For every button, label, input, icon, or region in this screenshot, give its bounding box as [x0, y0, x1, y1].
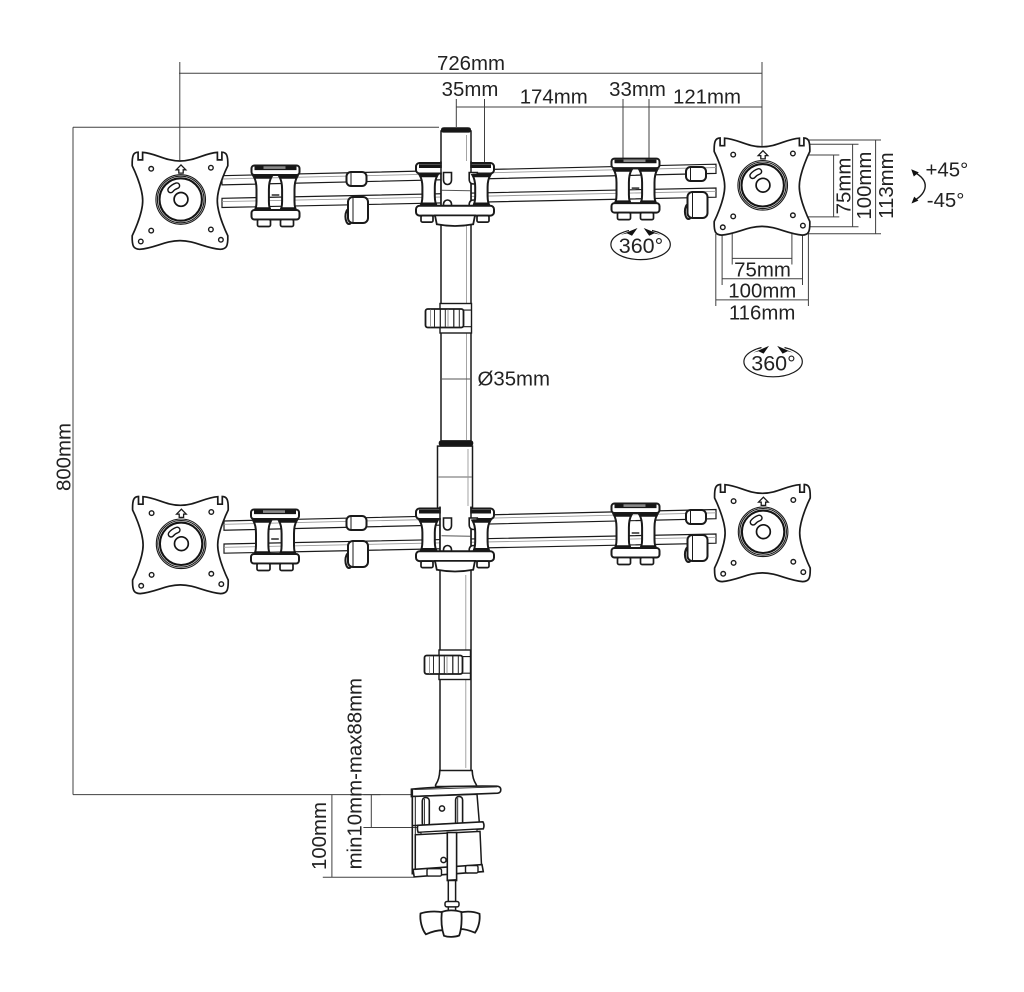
clamp rod collar: [445, 902, 459, 907]
svg-text:+45°: +45°: [926, 160, 969, 182]
svg-text:726mm: 726mm: [437, 53, 505, 75]
ext 75mm bottom: [796, 216, 840, 218]
top arm right joint clamp: [612, 159, 660, 220]
pole joint dark ring: [439, 440, 474, 446]
clamp bottom lip slot right: [466, 866, 479, 873]
pole seam: [441, 378, 471, 380]
pole clamp bottom arm: [416, 507, 494, 572]
VESA plate top-right: [714, 138, 810, 235]
pole top cap: [441, 127, 471, 132]
VESA plate bottom-right: [715, 485, 811, 582]
ext line min-max top tick: [363, 794, 380, 796]
svg-text:75mm: 75mm: [734, 260, 791, 282]
ext 100mm right: [802, 230, 804, 285]
clamp upper hole: [439, 806, 444, 811]
pole collar lower: [425, 650, 471, 680]
dim 100mm vertical line bottom: [331, 795, 333, 878]
bottom arm left cable clips: [345, 516, 368, 568]
ext 116mm right: [807, 230, 809, 306]
ext line clamp shelf: [363, 827, 418, 829]
tick 35mm right: [484, 99, 486, 163]
svg-text:33mm: 33mm: [609, 79, 666, 101]
ext 75mm top: [796, 154, 840, 156]
clamp knob left wing: [420, 912, 443, 935]
svg-text:35mm: 35mm: [442, 79, 499, 101]
svg-text:100mm: 100mm: [854, 152, 876, 220]
svg-text:100mm: 100mm: [309, 802, 331, 870]
top arm right cable clips: [685, 167, 708, 219]
bottom arm upper tube: [224, 510, 716, 531]
svg-text:121mm: 121mm: [673, 87, 741, 109]
dim 116mm bottom line: [716, 299, 809, 301]
dim 726mm line: [179, 72, 762, 74]
ext line 800mm top: [73, 126, 439, 128]
ext 75mm right: [791, 220, 793, 265]
clamp knob hub: [441, 910, 461, 937]
svg-text:Ø35mm: Ø35mm: [478, 369, 551, 391]
svg-text:113mm: 113mm: [876, 152, 898, 218]
svg-text:-45°: -45°: [927, 190, 965, 212]
dim min-max vertical line: [370, 795, 372, 828]
clamp lower hole: [441, 857, 446, 862]
clamp lower body face: [415, 831, 481, 869]
ext line right 726mm: [761, 62, 763, 147]
VESA plate top-left: [132, 152, 228, 249]
clamp top plate: [411, 786, 500, 796]
top arm left cable clips: [345, 172, 368, 224]
dim 113mm vertical line: [875, 140, 877, 234]
pole upper section: [441, 131, 471, 441]
tick 174mm right: [622, 99, 624, 159]
clamp bottom lip: [413, 865, 483, 877]
svg-text:116mm: 116mm: [729, 303, 795, 325]
pole sleeve section: [438, 446, 473, 508]
ext 113mm top: [808, 139, 881, 141]
top arm left joint clamp: [252, 166, 300, 227]
360 ellipse under right plate: [744, 346, 802, 376]
bottom arm lower tube: [224, 534, 716, 553]
pole collar upper: [426, 304, 472, 334]
svg-text:360°: 360°: [619, 234, 663, 258]
svg-text:100mm: 100mm: [728, 281, 796, 303]
clamp threaded rod: [447, 833, 456, 881]
ext 100mm left: [721, 233, 723, 285]
clamp knob right wing: [461, 912, 480, 933]
clamp guide slot right: [456, 797, 463, 827]
tick 33mm right: [648, 99, 650, 159]
ext 100mm bottom: [807, 226, 859, 228]
svg-text:800mm: 800mm: [54, 423, 76, 491]
clamp middle shelf: [417, 822, 484, 833]
tilt arc arrow: [914, 172, 926, 201]
dim chain line 35/174/33/121: [456, 106, 762, 108]
clamp upper body face: [412, 794, 479, 825]
dim 75mm vertical line: [833, 155, 835, 217]
ext 100mm top: [807, 143, 859, 145]
pole clamp top arm: [416, 161, 494, 226]
dim 75mm bottom line: [732, 257, 792, 259]
svg-text:360°: 360°: [751, 352, 795, 376]
clamp guide slot left: [422, 798, 429, 827]
ext 113mm bottom: [806, 233, 881, 235]
360 ellipse near pole: [611, 229, 670, 259]
clamp left wall: [411, 790, 413, 875]
dim 100mm vertical line: [852, 144, 854, 227]
top arm upper tube: [222, 164, 716, 185]
clamp base cone: [436, 771, 477, 787]
dim 100mm bottom line: [722, 278, 802, 280]
svg-text:174mm: 174mm: [520, 86, 588, 108]
bottom arm right joint clamp: [612, 504, 660, 565]
pole lower section: [440, 508, 471, 771]
clamp bottom lip slot left: [427, 869, 442, 876]
bottom arm right cable clips: [685, 510, 708, 562]
svg-text:min10mm-max88mm: min10mm-max88mm: [345, 678, 367, 869]
dim 800mm vertical line: [72, 127, 74, 794]
tick pole axis: [455, 99, 457, 127]
top arm lower tube: [222, 188, 716, 208]
VESA plate bottom-left: [133, 497, 229, 594]
ext line desk level: [73, 794, 412, 796]
ext line clamp bottom: [323, 876, 414, 878]
bottom arm left joint clamp: [251, 510, 299, 571]
ext line left 726mm: [179, 62, 181, 160]
ext 75mm left: [731, 222, 733, 265]
ext 116mm left: [715, 234, 717, 306]
